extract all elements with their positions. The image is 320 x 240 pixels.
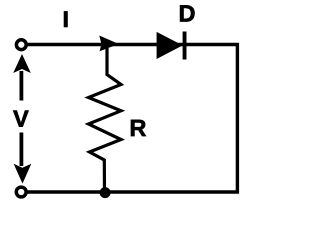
diode D triangle — [157, 32, 183, 59]
diode cathode bar — [183, 32, 187, 60]
wire main loop — [27, 45, 237, 193]
terminal top-left — [16, 40, 26, 50]
V source arrow down — [14, 133, 32, 184]
V source arrow up — [13, 54, 31, 101]
resistor R — [89, 46, 122, 192]
label I — [64, 11, 68, 27]
label D — [180, 5, 194, 21]
label V — [13, 111, 28, 127]
current arrow — [99, 36, 118, 52]
junction dot — [100, 187, 111, 198]
terminal bottom-left — [16, 187, 26, 197]
label R — [131, 120, 146, 136]
